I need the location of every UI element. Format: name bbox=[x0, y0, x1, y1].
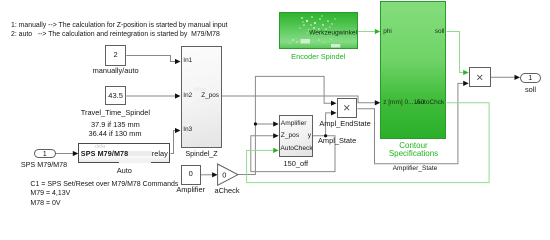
svg-text:0: 0 bbox=[222, 170, 226, 179]
svg-text:Werkzeugwinkel: Werkzeugwinkel bbox=[309, 30, 357, 37]
